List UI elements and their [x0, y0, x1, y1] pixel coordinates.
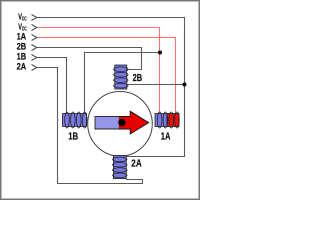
coil 1A loop 1 — [157, 112, 162, 128]
svg-text:2B: 2B — [133, 73, 143, 84]
coil 1B loop 3 — [77, 112, 82, 128]
coil 2A loop 1 — [113, 157, 127, 162]
input chevron Vcc1 — [32, 15, 37, 21]
input chevron Vcc2 — [32, 25, 37, 31]
coil 1A loop 3 — [169, 112, 174, 128]
wire 1B second lead to Vcc2 rail — [85, 53, 160, 115]
wire Vcc2 red: input down to 1A coil left lead — [37, 28, 160, 115]
coil 1B body — [63, 114, 87, 127]
rotor center dot — [118, 119, 125, 126]
coil 2A loop 2 — [113, 162, 127, 167]
coil 2A loop 4 — [113, 173, 127, 178]
svg-text:1B: 1B — [68, 132, 78, 143]
motor stator circle — [88, 92, 153, 157]
coil 1B loop 1 — [65, 112, 70, 128]
junction dot A (1B lead on Vcc2 red rail) — [158, 51, 162, 55]
wire 2B input — [37, 48, 142, 70]
wire Vcc1 black: input to 2A coil via right rail — [37, 18, 185, 157]
coil 1B loop 2 — [71, 112, 76, 128]
svg-text:2B: 2B — [17, 42, 27, 52]
coil 2B loop 1 — [114, 67, 128, 72]
coil 2B loop 3 — [114, 78, 128, 83]
svg-text:2A: 2A — [131, 159, 141, 170]
wire 2B second lead to Vcc1 rail — [127, 84, 185, 86]
rotor red arrow — [119, 111, 149, 134]
input chevron 2B — [32, 45, 37, 51]
wire 2A input: left, down, along bottom, to coil bottom — [37, 68, 143, 184]
coil 1A loop 2 — [163, 112, 168, 128]
input chevron 1B — [32, 55, 37, 61]
coil 1A loop 4 — [175, 112, 180, 128]
svg-text:1A: 1A — [161, 132, 171, 143]
coil 2B body — [115, 65, 127, 89]
wire 1B input — [37, 58, 67, 115]
coil 2B loop 2 — [114, 72, 128, 77]
coil 2A loop 3 — [113, 168, 127, 173]
rotor blue bar — [95, 116, 120, 129]
coil 1A body red half — [167, 114, 179, 127]
input chevron 2A — [32, 65, 37, 71]
svg-text:1B: 1B — [17, 52, 27, 62]
junction dot B (2B lead on Vcc1 rail) — [183, 83, 187, 87]
frame border (decorative) — [1, 1, 200, 200]
svg-text:2A: 2A — [17, 62, 27, 72]
svg-text:1A: 1A — [17, 32, 27, 42]
coil 2A body — [113, 155, 126, 178]
coil 1A body blue half — [155, 114, 167, 127]
coil 1B loop 4 — [82, 112, 87, 128]
wire 1A red: input down to 1A coil right lead — [37, 38, 176, 115]
coil 2B loop 4 — [114, 83, 128, 88]
input chevron 1A — [32, 35, 37, 41]
